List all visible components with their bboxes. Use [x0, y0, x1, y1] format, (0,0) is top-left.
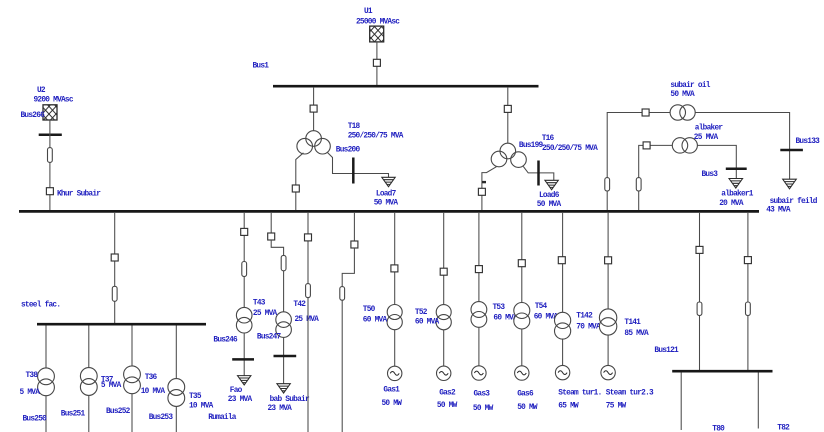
transformer T18 (3-winding)	[297, 87, 404, 154]
breaker on T16 LV lead	[478, 188, 485, 195]
svg-text:23 MVA: 23 MVA	[268, 405, 293, 413]
generator Gas1	[382, 366, 403, 408]
svg-text:25 MVA: 25 MVA	[253, 310, 278, 318]
svg-text:U1: U1	[364, 8, 373, 16]
svg-text:T52: T52	[415, 309, 428, 317]
svg-text:steel fac.: steel fac.	[21, 302, 60, 310]
transformer T53 feeder	[471, 212, 518, 366]
node Bus3	[702, 169, 747, 179]
svg-text:Bus266: Bus266	[21, 112, 46, 120]
svg-text:albaker1: albaker1	[721, 190, 754, 198]
node Bus199	[519, 142, 544, 186]
svg-text:Gas3: Gas3	[474, 391, 491, 399]
transformer T142 feeder	[555, 212, 601, 366]
svg-text:T35: T35	[189, 393, 202, 401]
svg-text:50 MW: 50 MW	[382, 400, 403, 408]
svg-text:50 MVA: 50 MVA	[537, 201, 562, 209]
branch albaker	[636, 125, 736, 211]
generator Gas2	[437, 366, 458, 410]
svg-text:Load6: Load6	[539, 192, 560, 200]
transformer T52 feeder	[415, 212, 451, 366]
svg-text:T36: T36	[145, 374, 158, 382]
svg-text:5 MVA: 5 MVA	[101, 382, 122, 390]
wire T18 LV lead to main bus	[296, 153, 304, 211]
svg-text:50 MW: 50 MW	[437, 402, 458, 410]
svg-text:T142: T142	[576, 312, 593, 320]
svg-text:50 MW: 50 MW	[517, 404, 538, 412]
svg-text:50 MW: 50 MW	[473, 405, 494, 413]
generator Steam tur1	[555, 365, 601, 410]
wire subair oil branch	[607, 113, 789, 212]
wire steel fac feeder	[114, 212, 116, 324]
generator U2	[34, 87, 74, 120]
wire albaker branch	[639, 145, 737, 211]
svg-text:Bus246: Bus246	[213, 337, 238, 345]
svg-text:Bus133: Bus133	[796, 138, 821, 146]
breaker Khur Subair	[46, 188, 101, 199]
reactor Bus121 left feeder	[697, 302, 702, 316]
branch subair oil	[605, 82, 790, 211]
svg-text:Bus253: Bus253	[149, 414, 174, 422]
transformer T141 feeder	[599, 212, 649, 366]
svg-text:Bus1: Bus1	[253, 63, 270, 71]
svg-text:25000 MVAsc: 25000 MVAsc	[356, 19, 400, 27]
transformer T50 feeder	[363, 212, 403, 366]
svg-text:60 MVA: 60 MVA	[415, 319, 440, 327]
transformer albaker	[672, 138, 687, 153]
wire Rumaila line 1	[307, 212, 309, 432]
generator Steam tur2	[601, 365, 654, 410]
svg-text:T53: T53	[493, 304, 506, 312]
wire T82	[758, 372, 790, 432]
svg-text:T82: T82	[777, 424, 790, 432]
svg-text:Gas1: Gas1	[383, 387, 400, 395]
svg-text:T54: T54	[535, 303, 548, 311]
svg-text:250/250/75 MVA: 250/250/75 MVA	[542, 145, 598, 153]
wire U1 to Bus1	[376, 42, 378, 86]
load Load7	[374, 177, 399, 207]
wire T16 LV lead to main bus	[482, 166, 497, 211]
svg-text:Rumaila: Rumaila	[208, 414, 237, 422]
U2 machine source box	[43, 105, 57, 120]
svg-text:50 MVA: 50 MVA	[374, 199, 399, 207]
svg-text:Fao: Fao	[230, 387, 243, 395]
transformer subair oil	[670, 105, 685, 120]
reactor Rumaila line 1	[306, 284, 311, 298]
svg-text:43 MVA: 43 MVA	[766, 206, 791, 214]
wire T16 tertiary to Bus199 and Load6	[523, 166, 554, 180]
svg-text:Steam tur1.: Steam tur1.	[558, 389, 601, 397]
wire T80	[681, 372, 725, 432]
svg-text:T16: T16	[542, 135, 555, 143]
svg-text:Bus199: Bus199	[519, 142, 544, 150]
node Bus133	[780, 138, 820, 150]
svg-text:9200 MVAsc: 9200 MVAsc	[34, 97, 74, 105]
svg-text:bab Subair: bab Subair	[270, 396, 310, 404]
transformer T38 feeder	[20, 326, 55, 432]
svg-text:Load7: Load7	[376, 190, 397, 198]
svg-text:subair oil: subair oil	[670, 82, 710, 90]
transformer T35 feeder	[149, 326, 214, 432]
svg-text:Bus251: Bus251	[61, 410, 86, 418]
breaker on T16 HV lead	[504, 105, 511, 112]
svg-text:T80: T80	[712, 425, 725, 432]
svg-text:5 MVA: 5 MVA	[20, 389, 41, 397]
transformer T42 feeder	[268, 212, 319, 384]
reactor Rumaila line 2	[340, 287, 345, 301]
svg-text:65 MW: 65 MW	[558, 402, 579, 410]
svg-text:Bus3: Bus3	[702, 171, 719, 179]
svg-text:10 MVA: 10 MVA	[141, 388, 166, 396]
generator Gas3	[472, 366, 494, 413]
svg-text:Steam tur2.3: Steam tur2.3	[606, 389, 654, 397]
svg-text:85 MVA: 85 MVA	[624, 330, 649, 338]
svg-text:Bus200: Bus200	[336, 147, 361, 155]
generator Gas6	[515, 366, 538, 412]
svg-text:Bus247: Bus247	[257, 333, 282, 341]
node Bus200	[336, 147, 361, 184]
breaker Bus121 right feeder	[744, 257, 751, 264]
node steel fac bus	[21, 302, 206, 325]
breaker steel fac feeder	[111, 254, 118, 261]
reactor on Khur Subair line	[48, 148, 53, 163]
breaker albaker	[643, 142, 650, 149]
breaker Bus121 left feeder	[696, 246, 703, 253]
svg-text:U2: U2	[37, 87, 46, 95]
svg-text:Gas6: Gas6	[517, 391, 534, 399]
transformer T16 (3-winding)	[491, 87, 598, 167]
transformer T54 feeder	[514, 212, 559, 366]
svg-text:25 MVA: 25 MVA	[295, 316, 320, 324]
svg-text:Bus252: Bus252	[106, 408, 131, 416]
wire Bus121 left feeder	[699, 212, 701, 370]
load Fao	[228, 376, 253, 405]
generator U1	[356, 8, 400, 42]
wire U2 to main bus (Khur Subair line)	[49, 120, 51, 211]
U1 machine source box	[370, 26, 384, 42]
svg-text:T141: T141	[624, 319, 641, 327]
svg-text:10 MVA: 10 MVA	[189, 402, 214, 410]
breaker subair oil	[642, 109, 649, 116]
load subair feild	[766, 179, 818, 214]
node Bus1	[253, 63, 539, 87]
svg-text:T50: T50	[363, 306, 376, 314]
node main bus	[19, 210, 759, 213]
svg-text:Khur Subair: Khur Subair	[57, 190, 101, 198]
breaker on T18 HV lead	[310, 105, 317, 112]
svg-text:T38: T38	[26, 372, 39, 380]
transformer T36 feeder	[106, 326, 165, 432]
svg-text:T18: T18	[348, 123, 361, 131]
tap stub on T16 LV lead	[482, 181, 486, 183]
load Load6	[537, 180, 562, 209]
breaker on U1 lead	[373, 59, 380, 66]
svg-text:75 MW: 75 MW	[606, 402, 627, 410]
wire Rumaila line 2	[353, 212, 355, 241]
reactor on albaker riser	[636, 178, 641, 191]
reactor Bus121 right feeder	[746, 302, 751, 316]
svg-text:60 MVA: 60 MVA	[363, 316, 388, 324]
svg-text:Bus121: Bus121	[654, 347, 679, 355]
transformer T37 feeder	[61, 326, 122, 432]
breaker on T18 LV lead	[292, 185, 299, 192]
load albaker1	[719, 179, 754, 209]
node Bus247	[257, 333, 296, 356]
breaker Rumaila line 1	[305, 234, 312, 241]
svg-text:T42: T42	[293, 301, 306, 309]
transformer T43 feeder	[236, 212, 277, 376]
svg-text:70 MVA: 70 MVA	[576, 323, 601, 331]
svg-text:23 MVA: 23 MVA	[228, 396, 253, 404]
svg-text:T43: T43	[253, 299, 266, 307]
node Bus246	[213, 337, 254, 360]
svg-text:subair feild: subair feild	[770, 198, 818, 206]
wire Bus121 right feeder	[747, 212, 749, 370]
wire Rumaila line 2 lower	[342, 248, 354, 432]
reactor steel fac feeder	[112, 286, 117, 301]
breaker Rumaila line 2	[351, 241, 358, 248]
wire T18 tertiary to Bus200 and Load7	[327, 152, 388, 177]
svg-text:Bus250: Bus250	[23, 415, 48, 423]
svg-text:25 MVA: 25 MVA	[694, 134, 719, 142]
svg-text:albaker: albaker	[695, 125, 724, 133]
svg-text:250/250/75 MVA: 250/250/75 MVA	[348, 132, 404, 140]
load bab Subair	[268, 384, 310, 413]
reactor on subair oil riser	[605, 178, 610, 191]
svg-text:Gas2: Gas2	[439, 390, 456, 398]
svg-text:20 MVA: 20 MVA	[719, 200, 744, 208]
node Bus121	[654, 347, 772, 371]
svg-text:50 MVA: 50 MVA	[670, 91, 695, 99]
node Bus266	[21, 112, 62, 135]
